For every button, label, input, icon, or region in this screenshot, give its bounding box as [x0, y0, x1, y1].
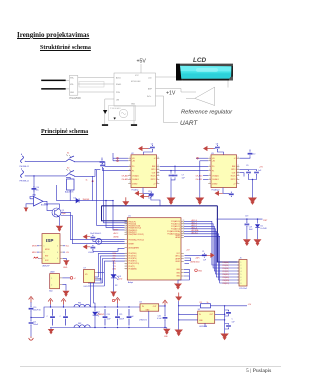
ground below Q5	[56, 226, 64, 232]
power arrows on top rail	[48, 299, 53, 305]
connector J4 battery	[50, 274, 60, 289]
svg-text:1k: 1k	[207, 302, 209, 304]
svg-text:4: 4	[126, 258, 127, 260]
svg-text:PHONE-J1: PHONE-J1	[20, 166, 29, 168]
wire oscillator to MCU xtal1	[61, 212, 125, 239]
svg-text:2: 2	[57, 246, 58, 248]
cap C28 on 3v3	[226, 324, 231, 329]
svg-text:+5V: +5V	[248, 304, 252, 306]
svg-text:AGND(AREF): AGND(AREF)	[129, 246, 140, 249]
svg-text:CH-AD0: CH-AD0	[196, 174, 203, 177]
svg-text:1uF: 1uF	[182, 178, 186, 180]
svg-text:PGA2500: PGA2500	[70, 96, 82, 100]
svg-text:Q5: Q5	[62, 210, 65, 212]
svg-text:U7: U7	[84, 268, 86, 270]
svg-text:ATMEGA8: ATMEGA8	[131, 80, 141, 83]
svg-text:17: 17	[126, 227, 128, 229]
svg-text:1: 1	[241, 262, 242, 264]
ground under U3 caps	[248, 198, 257, 205]
svg-text:10: 10	[237, 174, 239, 176]
svg-text:SCL: SCL	[66, 246, 70, 248]
footer rule	[20, 366, 281, 367]
U7 verticals to power rail	[90, 283, 92, 308]
svg-text:11: 11	[157, 171, 159, 173]
svg-text:AN0: AN0	[113, 267, 117, 270]
svg-text:C1: C1	[202, 251, 204, 253]
ground bar left	[102, 124, 108, 126]
IC U4 78L05 body	[140, 304, 159, 311]
bus wire 6	[184, 234, 239, 280]
capacitor C5 left of U2	[100, 159, 105, 164]
power arrow AVCC	[83, 235, 90, 239]
small black arrowhead	[114, 117, 117, 119]
svg-text:9: 9	[157, 178, 158, 180]
svg-text:U5: U5	[198, 309, 200, 311]
svg-text:7: 7	[209, 182, 210, 184]
svg-text:S1: S1	[67, 153, 69, 155]
svg-text:4: 4	[209, 169, 210, 171]
svg-text:1uF: 1uF	[203, 259, 207, 261]
wire: B to reference regulator	[156, 89, 197, 93]
svg-text:CH-AD1: CH-AD1	[196, 178, 203, 181]
svg-text:5: 5	[209, 174, 210, 176]
svg-text:18: 18	[126, 229, 128, 231]
black arrow into divider	[103, 110, 107, 114]
wire oscillator to MCU xtal2	[61, 216, 125, 244]
svg-text:SPIO: SPIO	[151, 169, 156, 171]
wire: B RxTx to UART	[156, 96, 179, 123]
svg-text:8: 8	[241, 283, 242, 285]
bus from rail corner	[217, 206, 239, 262]
svg-text:PreAmp2: PreAmp2	[212, 188, 220, 191]
svg-text:PD6(D6): PD6(D6)	[223, 268, 230, 270]
svg-text:2: 2	[241, 265, 242, 267]
LCD photo frame	[176, 64, 233, 81]
svg-text:OUT: OUT	[209, 314, 213, 316]
bus wire 5	[184, 231, 239, 277]
svg-text:U4: U4	[139, 302, 141, 304]
cap C27 on 3v3	[226, 311, 231, 316]
ground below LED	[110, 292, 117, 297]
svg-text:RCLK: RCLK	[151, 175, 157, 177]
svg-text:ISP: ISP	[46, 238, 53, 243]
battery positive net	[62, 277, 70, 279]
wire: triangle output	[186, 97, 195, 99]
svg-text:14: 14	[157, 157, 159, 159]
svg-text:RxTx: RxTx	[147, 96, 151, 98]
svg-text:1uF: 1uF	[148, 198, 152, 200]
svg-text:GND: GND	[164, 336, 169, 338]
svg-text:+1V: +1V	[166, 91, 176, 97]
svg-text:C26: C26	[158, 315, 161, 317]
zener D2	[94, 307, 96, 311]
capacitor C15	[91, 235, 96, 240]
junction dots rails	[94, 306, 95, 307]
svg-text:LED: LED	[119, 279, 123, 281]
connector J1 phone input	[21, 154, 26, 163]
svg-text:6: 6	[57, 258, 58, 260]
op-amp U6A	[30, 197, 43, 206]
preamp box A	[69, 76, 78, 96]
svg-text:AVR-ISP: AVR-ISP	[43, 265, 51, 268]
ISP ground right	[63, 258, 67, 260]
svg-text:J5: J5	[240, 258, 242, 260]
ground under C26	[166, 328, 168, 329]
svg-text:UGN: UGN	[84, 286, 89, 288]
svg-text:13: 13	[237, 165, 239, 167]
capacitor C17 on VCC	[202, 253, 207, 258]
wire transistor collector up	[44, 204, 59, 208]
svg-text:GND: GND	[63, 267, 68, 269]
ground under C13	[243, 239, 251, 246]
battery branch ground	[29, 337, 34, 341]
svg-text:UART: UART	[180, 120, 198, 127]
power arrow right	[206, 253, 214, 257]
svg-text:1uF: 1uF	[131, 316, 135, 318]
svg-text:12: 12	[237, 168, 239, 170]
svg-text:C24: C24	[107, 314, 110, 316]
ground bar right	[131, 124, 137, 126]
svg-text:13: 13	[157, 165, 159, 167]
AC source box	[109, 106, 136, 121]
filter cap C24	[103, 309, 108, 326]
capacitor C8 above U3	[215, 145, 220, 150]
svg-text:8: 8	[157, 182, 158, 184]
thick sensor lead 2	[41, 88, 65, 90]
svg-text:VIN-: VIN-	[70, 84, 74, 86]
wire left bus 3	[97, 170, 125, 225]
wire U3 pin2 down to ground	[199, 161, 201, 198]
svg-text:UIN: UIN	[116, 100, 120, 102]
svg-text:10: 10	[157, 174, 159, 176]
svg-text:P0: P0	[132, 166, 134, 168]
open arrow at U4 out	[163, 300, 168, 306]
ground under U3 input	[195, 198, 204, 205]
filter cap C23	[63, 309, 68, 326]
power arrow above U3	[204, 147, 214, 151]
3v3 out wire	[225, 305, 247, 307]
svg-text:LCD-16x2: LCD-16x2	[239, 288, 247, 290]
svg-text:SPIO: SPIO	[231, 169, 236, 171]
svg-text:GND: GND	[131, 104, 136, 106]
svg-text:12: 12	[157, 168, 159, 170]
svg-text:16: 16	[126, 225, 128, 227]
svg-text:PB2(RW): PB2(RW)	[223, 280, 230, 282]
principal schematic svg	[0, 138, 300, 350]
cap above U3 right pin	[240, 156, 251, 158]
svg-text:PD6(AIN0): PD6(AIN0)	[129, 267, 138, 270]
svg-text:2: 2	[129, 159, 130, 161]
svg-text:C12: C12	[148, 191, 151, 193]
svg-text:ZMM5V1: ZMM5V1	[98, 314, 105, 316]
wire AVCC row	[185, 258, 191, 261]
svg-text:PD5(D5): PD5(D5)	[223, 265, 230, 267]
wire tap to filter	[44, 307, 50, 318]
svg-text:PHONE-J2: PHONE-J2	[20, 181, 29, 183]
red node below LED	[112, 299, 114, 301]
U3 right pins	[237, 157, 240, 159]
svg-text:+5V: +5V	[259, 167, 263, 169]
battery branch caps	[30, 302, 32, 306]
svg-text:P1: P1	[212, 170, 214, 172]
IC U7 body	[84, 270, 95, 283]
connector ISP J3	[42, 234, 60, 264]
transistor Q5	[52, 208, 61, 217]
svg-text:14: 14	[126, 221, 128, 223]
MCU box B	[114, 73, 156, 106]
power arrow above U2	[139, 147, 149, 151]
svg-text:1k: 1k	[86, 180, 88, 182]
svg-text:6: 6	[126, 263, 127, 265]
svg-text:1: 1	[209, 157, 210, 159]
svg-text:PB6(XTAL1/TOSC1): PB6(XTAL1/TOSC1)	[129, 233, 145, 236]
svg-text:AGND100n: AGND100n	[191, 260, 200, 263]
IC U5 LM1117	[198, 311, 215, 323]
svg-text:LCD: LCD	[193, 57, 207, 64]
svg-text:AGND: AGND	[114, 235, 120, 238]
filter cap C26b	[127, 309, 132, 326]
wire K1 bottom junction	[69, 190, 71, 201]
relay box K1	[67, 179, 75, 190]
wire bias to left bus	[93, 200, 113, 202]
svg-text:+5V: +5V	[186, 249, 190, 251]
wire MCU pin to LED	[113, 261, 115, 275]
ground bottom rail left	[50, 328, 52, 330]
U1 right pins	[181, 221, 184, 234]
svg-text:FB2: FB2	[78, 323, 81, 325]
wire J2 to switch S2	[26, 175, 66, 177]
svg-text:PB3(VO): PB3(VO)	[223, 283, 230, 285]
svg-text:C25: C25	[119, 314, 122, 316]
svg-text:GND1: GND1	[175, 261, 180, 263]
feed vertical	[178, 301, 180, 330]
bus wire 3	[184, 226, 239, 271]
U2 left pins	[128, 158, 131, 161]
footer page number	[246, 368, 271, 374]
wires into U3 left top	[196, 157, 208, 159]
svg-text:AVCC: AVCC	[175, 255, 180, 258]
svg-text:1uF: 1uF	[232, 321, 236, 323]
capacitor C16	[91, 245, 96, 250]
ground mid channel	[167, 198, 176, 205]
battery power arrow	[29, 297, 34, 303]
channel wires U2 to U3	[160, 165, 209, 167]
svg-text:C: C	[47, 316, 49, 318]
U7 pins	[95, 273, 98, 279]
U4 output wire	[159, 305, 165, 307]
svg-text:1uF: 1uF	[258, 170, 262, 172]
svg-text:PreAmp: PreAmp	[132, 188, 139, 191]
svg-text:19: 19	[126, 232, 128, 234]
svg-text:D6: D6	[261, 226, 263, 228]
svg-text:RESET: RESET	[129, 243, 135, 245]
+5V power rail	[102, 205, 218, 207]
wire rail end to VCC pin	[102, 206, 128, 221]
wire bias rail	[57, 185, 93, 201]
svg-text:P1: P1	[132, 170, 134, 172]
filter cap C25	[115, 309, 120, 326]
decoupling below U2	[135, 191, 143, 195]
svg-text:CH-AD1: CH-AD1	[132, 178, 139, 181]
svg-text:C19: C19	[249, 227, 252, 229]
wire: +5V to VCC	[140, 64, 142, 73]
svg-text:AVCC: AVCC	[114, 232, 120, 235]
svg-text:7: 7	[241, 280, 242, 282]
svg-text:PB0(RS): PB0(RS)	[223, 274, 230, 276]
filter bottom rail	[50, 327, 167, 329]
bus wire 2	[184, 224, 239, 268]
ground op-amp	[24, 208, 29, 212]
wire node down to op-amp U6	[33, 176, 35, 197]
svg-text:0.1uF: 0.1uF	[157, 318, 162, 320]
analog switch S1	[66, 156, 78, 162]
svg-text:1: 1	[129, 157, 130, 159]
power arrow AGND	[83, 245, 90, 249]
svg-text:RCLK: RCLK	[231, 175, 237, 177]
wire: LCD lead down	[227, 81, 229, 88]
svg-text:4: 4	[57, 252, 58, 254]
svg-text:C: C	[60, 316, 62, 318]
svg-text:GND: GND	[198, 270, 203, 272]
LED D3	[111, 275, 116, 278]
U3 right caps C9 C10	[240, 169, 249, 171]
svg-text:VIN+: VIN+	[70, 78, 74, 80]
wire: A to B low	[78, 91, 114, 93]
svg-text:D4: D4	[74, 198, 76, 200]
svg-text:2: 2	[51, 285, 52, 287]
svg-text:AMP: AMP	[148, 88, 153, 91]
ferrite FB2	[74, 325, 90, 328]
wire: B left bottom to sensor gnd	[105, 99, 114, 124]
wire cap to U2 input pins	[103, 168, 132, 171]
svg-text:3: 3	[209, 165, 210, 167]
wire op-amp inputs	[30, 197, 34, 199]
wire: sensor lines to preamp	[66, 80, 70, 89]
svg-text:2: 2	[209, 159, 210, 161]
op-amp triangle: reference regulator	[195, 87, 215, 105]
svg-text:AREF: AREF	[175, 236, 180, 239]
junction node bias	[92, 180, 94, 182]
svg-text:PDN: PDN	[116, 92, 120, 94]
wire: B GND down	[133, 106, 135, 124]
svg-text:MOSI: MOSI	[45, 249, 50, 251]
subheading: Principinė schema	[41, 129, 88, 135]
svg-text:100nF: 100nF	[119, 319, 125, 321]
svg-text:7: 7	[129, 182, 130, 184]
svg-text:GND: GND	[70, 92, 75, 94]
wire switch outputs to coupling caps	[78, 161, 100, 163]
analog switch S2	[66, 171, 78, 177]
U4 ground lead	[148, 311, 150, 327]
U7 outputs right	[97, 272, 104, 274]
thick sensor lead 1	[41, 80, 65, 82]
capacitor C13	[246, 219, 248, 222]
svg-text:ADC0: ADC0	[116, 77, 121, 80]
wire LED to ground	[113, 278, 115, 291]
wire: A to B top	[78, 77, 114, 79]
svg-text:8: 8	[237, 182, 238, 184]
svg-text:VCC: VCC	[135, 75, 139, 77]
subheading: Struktūrinė schema	[40, 45, 91, 51]
svg-text:CH-AD1: CH-AD1	[212, 178, 219, 181]
rail decoupling cap C12	[140, 194, 149, 198]
svg-text:MOSI: MOSI	[32, 246, 37, 248]
wires into U2 left top	[113, 157, 128, 159]
svg-text:3: 3	[241, 268, 242, 270]
svg-text:+5V: +5V	[137, 59, 147, 65]
heading: Įrenginio projektavimas	[17, 31, 89, 39]
svg-text:6: 6	[209, 178, 210, 180]
svg-text:J-BAT: J-BAT	[50, 271, 56, 274]
IC U3 body	[211, 155, 237, 188]
filter top rail	[50, 306, 140, 308]
svg-text:15: 15	[126, 223, 128, 225]
U2 right pins	[157, 157, 160, 159]
ground 3v3	[220, 334, 229, 341]
connector J5 LCD	[239, 260, 247, 287]
capacitor C6 above U2	[150, 145, 155, 150]
ground feed	[174, 330, 183, 337]
diode D4	[76, 198, 79, 202]
wire K1 top to switches	[66, 177, 70, 179]
svg-text:RXTX: RXTX	[151, 179, 157, 181]
svg-text:3: 3	[44, 252, 45, 254]
svg-text:C9: C9	[246, 165, 248, 167]
svg-text:L100uF: L100uF	[88, 252, 95, 254]
wire transistor emitter to ground	[58, 217, 60, 226]
junction dots left bus	[105, 200, 106, 201]
wire: B to LCD	[156, 76, 177, 78]
zener D5	[257, 219, 259, 223]
svg-text:CH-AD0: CH-AD0	[212, 174, 219, 177]
svg-text:CH-AD0: CH-AD0	[122, 174, 129, 177]
svg-text:100nF: 100nF	[33, 324, 39, 326]
svg-text:10uF: 10uF	[107, 319, 112, 321]
svg-text:5: 5	[129, 174, 130, 176]
svg-text:MISO: MISO	[32, 252, 37, 254]
svg-text:3: 3	[126, 256, 127, 258]
svg-text:+5V: +5V	[66, 252, 70, 254]
svg-text:LCD: LCD	[148, 78, 152, 80]
svg-text:C: C	[232, 319, 234, 321]
inductor L1	[96, 238, 102, 244]
U5 bottom stub	[204, 323, 206, 327]
svg-text:DGND: DGND	[212, 183, 218, 185]
filter cap C22	[50, 309, 55, 326]
svg-text:4: 4	[241, 271, 242, 273]
svg-text:Reference regulator: Reference regulator	[181, 110, 233, 116]
svg-text:5: 5	[241, 274, 242, 276]
power arrow onto rail	[125, 197, 127, 203]
bus rectangle between A and B	[79, 82, 104, 88]
bus wire 4	[184, 229, 239, 274]
svg-text:C7: C7	[182, 175, 184, 177]
gnd node symbol	[195, 269, 198, 272]
U3 left pins	[208, 158, 211, 161]
svg-text:100uF/16: 100uF/16	[33, 310, 41, 312]
capacitor C14	[32, 186, 37, 191]
right vertical 3v3	[224, 306, 226, 334]
svg-text:22pF: 22pF	[62, 213, 67, 215]
lower staircase wires to MCU	[99, 253, 125, 277]
svg-text:7: 7	[126, 266, 127, 268]
ferrite FB1	[74, 304, 90, 307]
svg-text:LL4148: LL4148	[261, 228, 267, 230]
svg-text:PB1(EN): PB1(EN)	[223, 277, 230, 279]
svg-text:AREF: AREF	[175, 257, 180, 260]
junction on J2 wire	[33, 175, 34, 176]
connector J2 phone input	[21, 169, 26, 178]
